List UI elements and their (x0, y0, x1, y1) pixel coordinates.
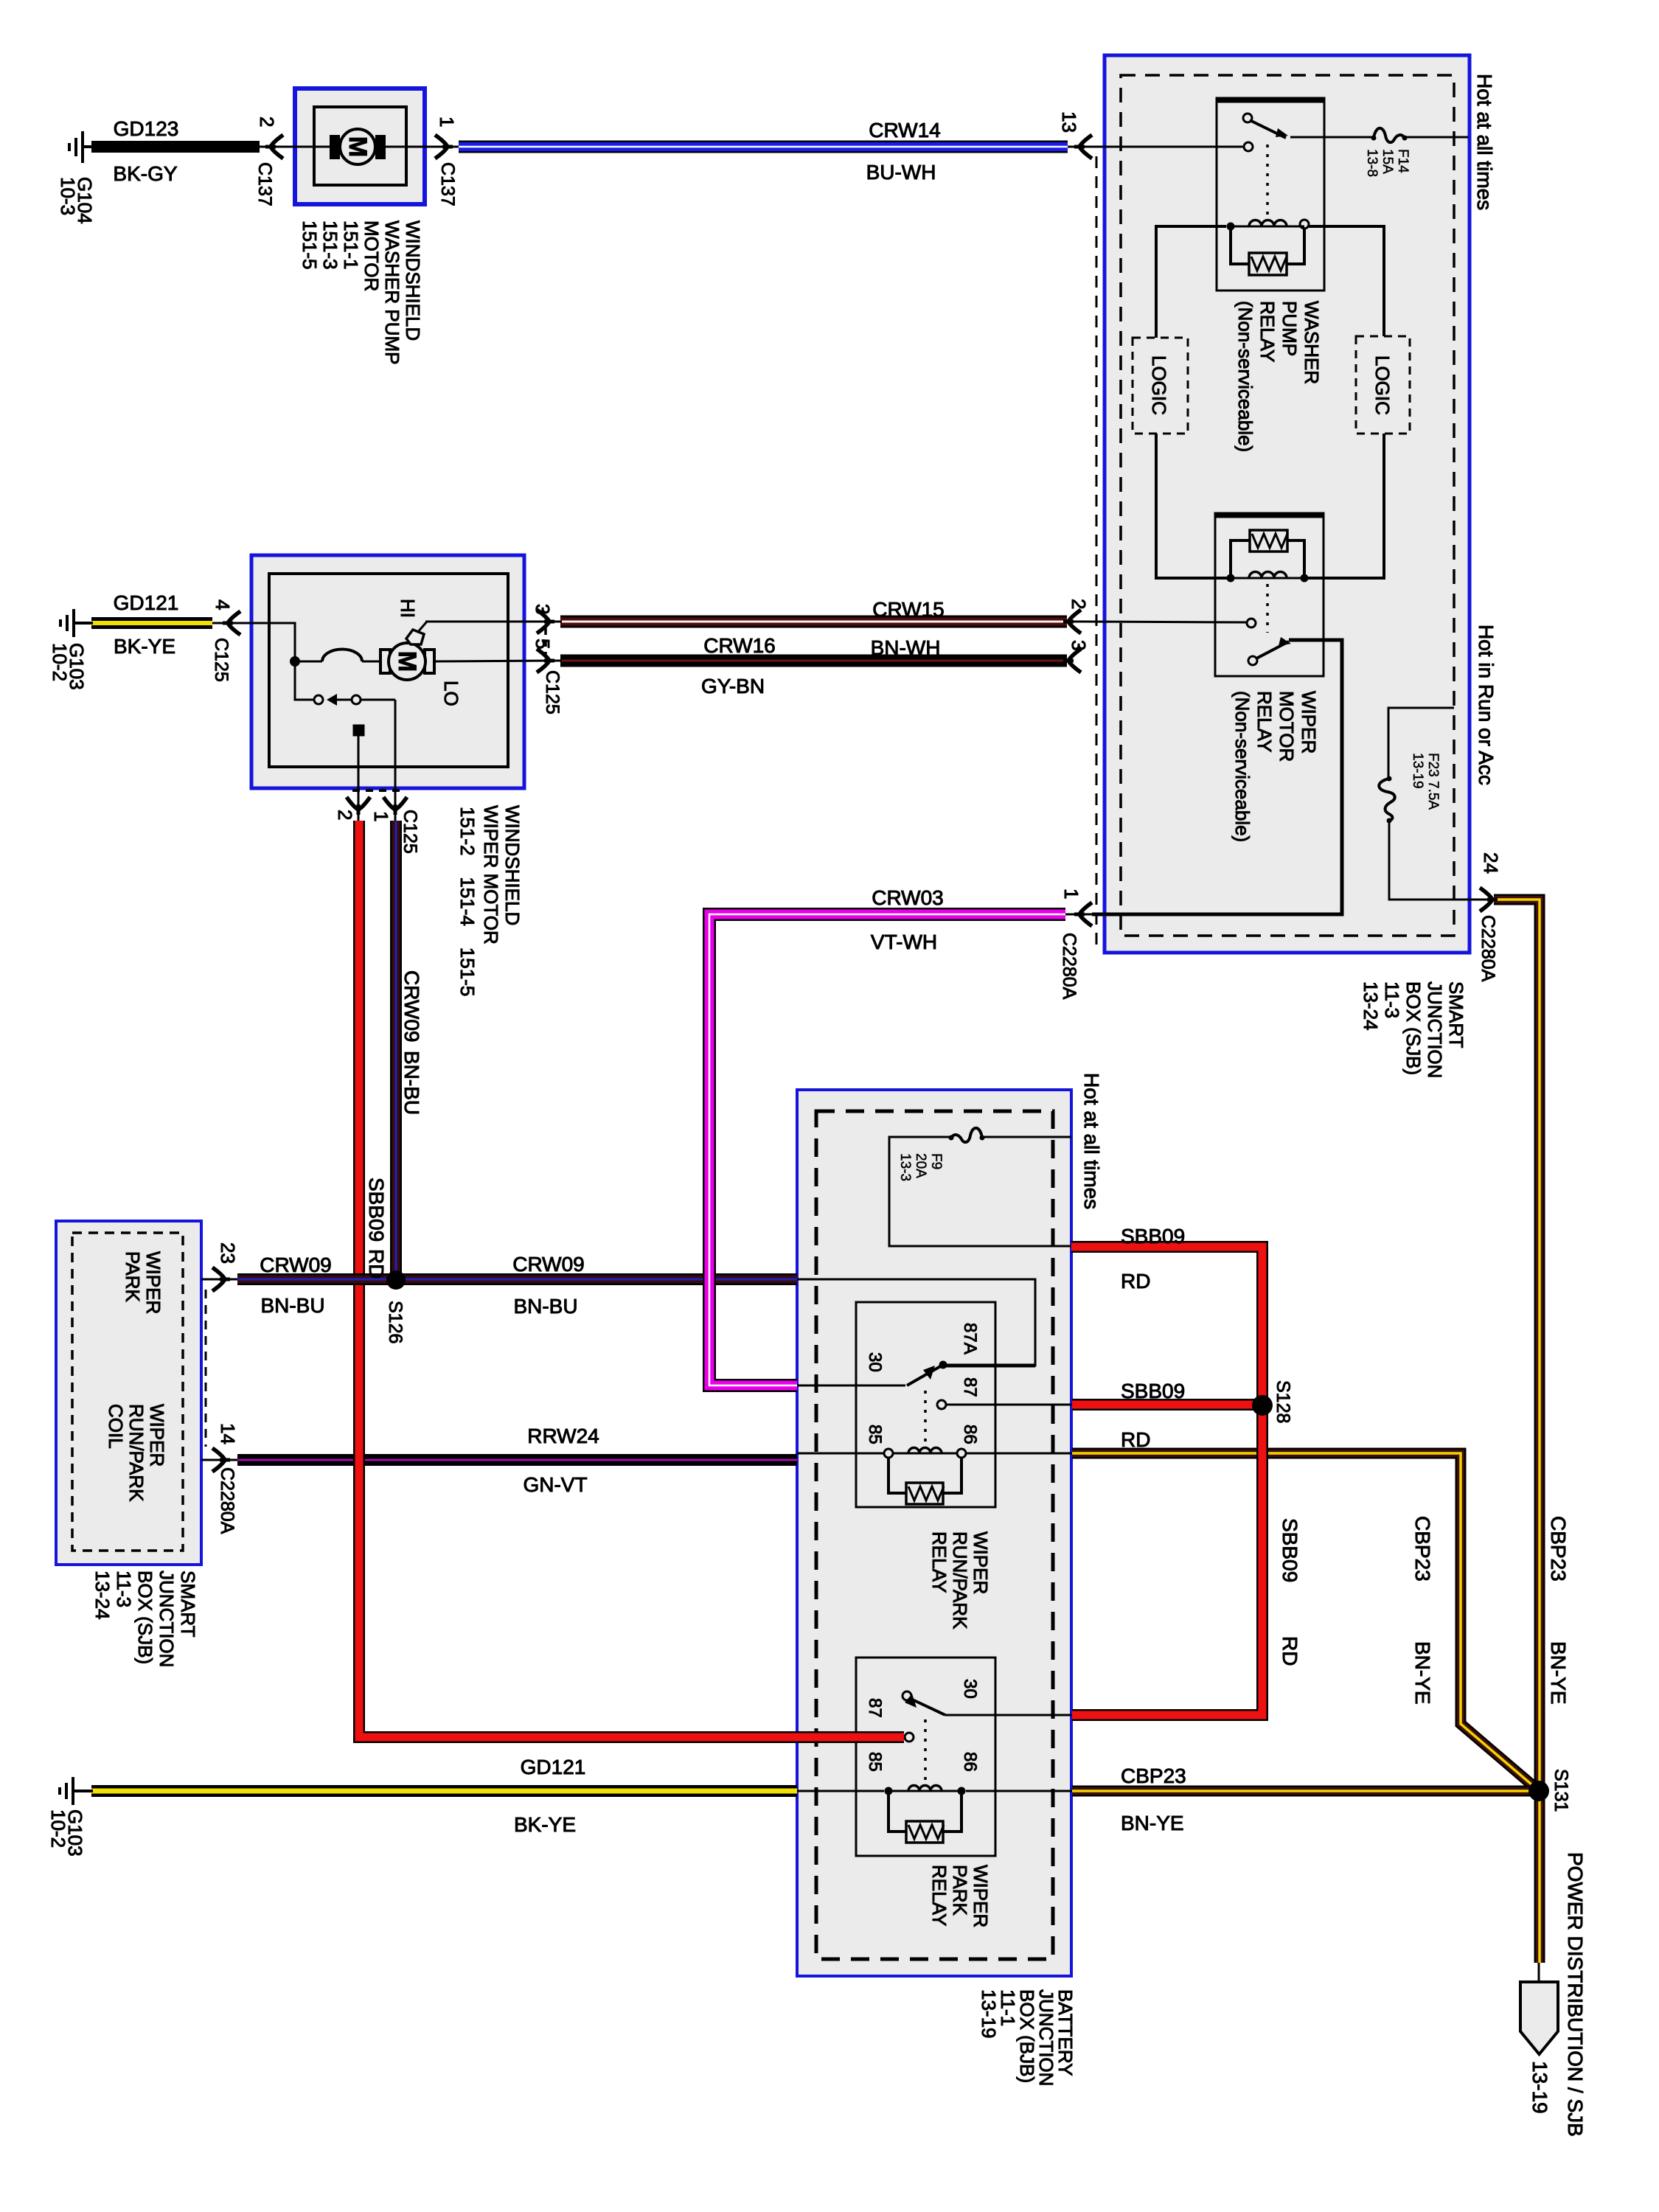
svg-text:HI: HI (397, 599, 419, 618)
svg-text:BN-BU: BN-BU (260, 1294, 324, 1317)
svg-text:87: 87 (865, 1698, 885, 1718)
svg-text:BN-YE: BN-YE (1411, 1641, 1434, 1705)
motor M symbol washer pump (330, 135, 340, 159)
svg-text:30: 30 (960, 1679, 980, 1699)
svg-text:F1415A13-8: F1415A13-8 (1364, 149, 1411, 177)
wire GD121 BK-YE ground to wiper motor pin 4 (91, 617, 212, 629)
run park relay feed from CRW09 (797, 1279, 1035, 1366)
wire right LOGIC to wiper motor relay coil (1308, 434, 1384, 578)
svg-text:2: 2 (1068, 599, 1090, 609)
inductor arc wiper motor (295, 661, 322, 663)
svg-text:1: 1 (436, 116, 458, 127)
fuse F23 (1379, 779, 1394, 821)
line S131 to power distribution symbol (1538, 1963, 1540, 1983)
connector arrow SJB pin 3 (left) (1068, 649, 1081, 672)
connector arrow SJB pin 2 (left) (1068, 610, 1081, 633)
F23 feed from Hot in Run or Acc (1388, 708, 1454, 779)
connector dash C2280A along SJB left edge (1096, 156, 1098, 951)
svg-text:CBP23: CBP23 (1121, 1764, 1186, 1787)
junction S131 (1528, 1781, 1549, 1801)
svg-text:LOGIC: LOGIC (1371, 355, 1394, 415)
svg-text:S131: S131 (1551, 1769, 1571, 1812)
svg-text:C2280A: C2280A (1478, 915, 1498, 982)
svg-text:GY-BN: GY-BN (701, 675, 765, 698)
svg-text:85: 85 (865, 1425, 885, 1444)
SJB inner dashed border (1121, 75, 1454, 936)
svg-text:SBB09: SBB09 (1121, 1225, 1185, 1248)
svg-text:2: 2 (334, 810, 356, 820)
wire CRW09 BN-BU wiper park pin 23 to S126 to BJB (237, 1273, 797, 1285)
wiper park SJB box (left) (56, 1221, 201, 1565)
windshield wiper motor box (251, 555, 524, 788)
svg-text:24: 24 (1480, 852, 1502, 874)
wire CBP23 BN-YE run park coil to S131 (diagonal) (1072, 1453, 1537, 1789)
svg-text:CRW16: CRW16 (703, 634, 776, 657)
wire GD123 BK-GY ground to washer pump (91, 141, 260, 153)
park relay coil (885, 1787, 893, 1795)
svg-text:C2280A: C2280A (217, 1467, 237, 1534)
wiper motor relay resistor (1231, 540, 1250, 578)
ground G104 (69, 131, 93, 163)
wiper run park relay box (856, 1302, 995, 1507)
svg-text:86: 86 (960, 1752, 980, 1772)
run park relay 87 contact (937, 1400, 946, 1409)
connector arrow C125 pin 4 (left) (228, 611, 240, 635)
wire washer relay coil to left LOGIC (1156, 226, 1226, 338)
svg-text:BN-YE: BN-YE (1121, 1812, 1184, 1834)
pin 4 ground wire into wiper motor (240, 623, 295, 659)
svg-text:SBB09: SBB09 (365, 1178, 388, 1242)
svg-text:CRW09: CRW09 (260, 1253, 332, 1276)
run park relay blade (907, 1365, 943, 1385)
run park relay resistor (888, 1458, 906, 1493)
park switch wiper contact stem (354, 726, 364, 735)
wire CRW09 BN-BU wiper motor pin 1 down to S126 (390, 821, 402, 1281)
wire CRW14 BU-WH washer pump to SJB pin 13 (459, 141, 1068, 153)
connector arrow C137 pin 2 (left) (271, 135, 283, 159)
svg-text:13-19: 13-19 (1528, 2061, 1551, 2114)
wire SBB09 RD wiper motor pin 2 down and right to park relay 87 (359, 821, 904, 1737)
svg-text:CRW09: CRW09 (400, 970, 423, 1043)
junction S128 (1252, 1395, 1273, 1416)
connector arrow C125 pin 2 (down) (347, 797, 370, 810)
svg-text:RD: RD (1121, 1428, 1150, 1451)
svg-text:4: 4 (212, 599, 234, 610)
svg-text:S128: S128 (1273, 1380, 1293, 1423)
connector arrow SJB pin 1 (left) (1079, 902, 1092, 926)
svg-text:C2280A: C2280A (1059, 933, 1079, 1000)
svg-text:GD123: GD123 (114, 117, 179, 140)
junction dot wiper motor common (290, 656, 300, 667)
svg-text:CRW03: CRW03 (872, 886, 944, 909)
svg-text:BN-YE: BN-YE (1547, 1641, 1570, 1705)
F9 box path to SBB09 (889, 1137, 1071, 1246)
svg-text:Hot at all times: Hot at all times (1080, 1073, 1103, 1209)
connector arrow SJB pin 13 (left) (1079, 135, 1092, 159)
svg-text:BN-BU: BN-BU (513, 1295, 577, 1318)
svg-text:LOGIC: LOGIC (1148, 355, 1170, 415)
wire CBP23 BN-YE park relay coil to S131 (1072, 1786, 1539, 1797)
svg-text:BU-WH: BU-WH (866, 161, 936, 184)
connector arrow C137 pin 1 (right) (435, 135, 448, 159)
wire RRW24 GN-VT wiper park pin 14 to BJB (237, 1454, 797, 1466)
svg-text:5: 5 (532, 639, 554, 649)
washer pump relay dotted link (1266, 145, 1269, 218)
power distribution pointer symbol (1520, 1982, 1558, 2054)
wiper motor relay dotted link (1266, 584, 1269, 633)
svg-text:LO: LO (440, 681, 462, 706)
svg-text:2: 2 (256, 116, 278, 127)
wire SBB09 RD fuse F9 to S128 down to park relay 30 (1071, 1247, 1262, 1715)
svg-text:30: 30 (865, 1352, 885, 1372)
svg-text:BN-BU: BN-BU (400, 1051, 423, 1115)
svg-text:SBB09: SBB09 (1279, 1518, 1301, 1582)
wire CRW15 BN-WH wiper motor pin 3 to SJB pin 2 (560, 616, 1067, 628)
wiper motor relay box (1215, 513, 1324, 676)
park relay resistor (888, 1791, 906, 1832)
wire CRW03 VT-WH SJB pin 1 to BJB run park relay 30 (709, 914, 1065, 1385)
svg-text:C125: C125 (211, 638, 232, 682)
svg-text:POWER DISTRIBUTION / SJB: POWER DISTRIBUTION / SJB (1564, 1852, 1587, 2137)
LOGIC box right (1356, 336, 1410, 434)
svg-text:23: 23 (217, 1242, 239, 1264)
fuse F9 (951, 1128, 982, 1142)
svg-text:3: 3 (1068, 640, 1090, 650)
connector stub lines (201, 147, 1497, 1460)
washer pump relay box (1217, 98, 1324, 291)
svg-text:CRW14: CRW14 (869, 119, 941, 142)
wiper motor relay output to pin 1 (1092, 640, 1342, 914)
windshield washer pump motor box (295, 88, 425, 204)
pin 13 wire into SJB to washer pump relay (1091, 146, 1245, 148)
wiper motor relay switch blade (1248, 656, 1257, 665)
svg-text:1: 1 (1060, 888, 1082, 899)
park relay 30 pivot (902, 1691, 911, 1700)
connector arrow wiper park pin 14 (right) (212, 1448, 225, 1472)
park relay 87 contact (905, 1733, 914, 1742)
svg-text:WIPER MOTOR: WIPER MOTOR (480, 805, 502, 945)
svg-text:WINDSHIELD: WINDSHIELD (501, 805, 524, 925)
wire GD121 BK-YE ground to BJB park relay coil (91, 1785, 797, 1797)
svg-text:CBP23: CBP23 (1547, 1516, 1570, 1582)
svg-text:BN-WH: BN-WH (871, 636, 941, 659)
smart junction box SJB (top right) (1105, 55, 1470, 953)
svg-text:S126: S126 (385, 1301, 406, 1343)
svg-text:VT-WH: VT-WH (871, 931, 937, 953)
svg-text:C137: C137 (437, 162, 458, 206)
connector arrow C125 pin 1 (down) (383, 797, 407, 810)
ground G103 bottom (60, 1777, 93, 1805)
connector dash C125 pins 2-1 (352, 789, 404, 792)
HI brush and wire to pin 3 (406, 630, 424, 644)
svg-text:RRW24: RRW24 (527, 1425, 599, 1447)
svg-text:M: M (393, 651, 421, 672)
svg-text:CRW15: CRW15 (872, 598, 945, 621)
svg-text:RD: RD (1279, 1636, 1301, 1666)
wire CBP23 BN-YE SJB pin 24 down through S131 (1494, 900, 1540, 1963)
svg-text:RD: RD (1121, 1270, 1150, 1293)
wiper motor relay contact to pin 2 (1247, 619, 1256, 627)
svg-text:87: 87 (960, 1377, 980, 1397)
wiper park box inner dashed border (72, 1233, 183, 1551)
svg-text:14: 14 (217, 1423, 239, 1444)
svg-text:Hot at all times: Hot at all times (1473, 74, 1496, 210)
park switch wiper motor (295, 661, 314, 700)
ground G103 middle (60, 609, 93, 637)
wiper park relay box (856, 1658, 995, 1856)
connector arrow C125 pin 3 (right) (537, 610, 549, 633)
svg-text:C125: C125 (400, 810, 420, 854)
run park relay dotted link (924, 1391, 927, 1445)
svg-text:CRW09: CRW09 (512, 1253, 585, 1276)
svg-text:C125: C125 (542, 670, 563, 714)
svg-text:BK-YE: BK-YE (514, 1813, 576, 1836)
svg-text:3: 3 (532, 604, 554, 614)
battery junction box BJB (797, 1090, 1071, 1976)
svg-text:13: 13 (1058, 111, 1080, 133)
F9 feed in BJB (982, 1136, 1071, 1138)
svg-text:151-2 151-4 151-5: 151-2 151-4 151-5 (456, 807, 479, 996)
svg-text:87A: 87A (960, 1323, 980, 1354)
svg-text:85: 85 (865, 1752, 885, 1772)
motor M symbol wiper motor (380, 650, 390, 673)
wire through washer pump motor (260, 146, 341, 148)
wire left LOGIC to wiper motor relay coil (1156, 434, 1227, 578)
wire washer relay coil to right LOGIC (1309, 226, 1384, 336)
svg-text:GN-VT: GN-VT (523, 1473, 587, 1496)
wiper motor relay coil (1227, 574, 1235, 582)
connector dash C125 pins 3-5 (544, 628, 547, 655)
svg-text:BK-GY: BK-GY (113, 162, 177, 185)
park relay dotted link (924, 1719, 927, 1783)
wire CRW16 GY-BN wiper motor pin 5 to SJB pin 3 (560, 655, 1067, 667)
connector arrow SJB pin 24 (right) (1480, 888, 1492, 911)
washer pump relay coil (1227, 223, 1235, 231)
LOGIC box left (1133, 338, 1188, 434)
svg-text:CBP23: CBP23 (1411, 1516, 1434, 1582)
svg-text:BK-YE: BK-YE (114, 635, 175, 658)
washer pump relay resistor (1231, 226, 1249, 264)
washer pump relay switch (1243, 114, 1252, 122)
connector dash C2280A pins 23-14 (205, 1290, 207, 1447)
run park relay 30 wire to CRW03 (797, 1385, 905, 1387)
svg-text:86: 86 (960, 1425, 980, 1444)
svg-text:GD121: GD121 (521, 1756, 586, 1778)
run park relay coil (884, 1449, 893, 1458)
LO wire to pin 5 (434, 661, 550, 661)
fuse F14 (1374, 128, 1405, 142)
washer pump motor inner box (314, 107, 406, 185)
connector arrow wiper park pin 23 (right) (212, 1267, 225, 1291)
wiper motor inner box (269, 574, 508, 767)
svg-text:M: M (344, 136, 372, 157)
svg-text:Hot in Run or Acc: Hot in Run or Acc (1475, 625, 1498, 785)
junction S126 (386, 1270, 406, 1290)
BJB inner dashed border (816, 1111, 1053, 1959)
svg-text:RD: RD (365, 1249, 388, 1279)
wire SBB09 RD run park relay 87 to S128 (1072, 1399, 1262, 1411)
F23 to pin 24 (1389, 821, 1480, 900)
svg-text:SBB09: SBB09 (1121, 1380, 1185, 1402)
run park relay 87A pivot (939, 1361, 947, 1369)
connector arrow C125 pin 5 (right) (537, 649, 549, 672)
svg-text:1: 1 (370, 811, 392, 821)
svg-text:GD121: GD121 (114, 591, 179, 614)
svg-text:C137: C137 (254, 162, 275, 206)
